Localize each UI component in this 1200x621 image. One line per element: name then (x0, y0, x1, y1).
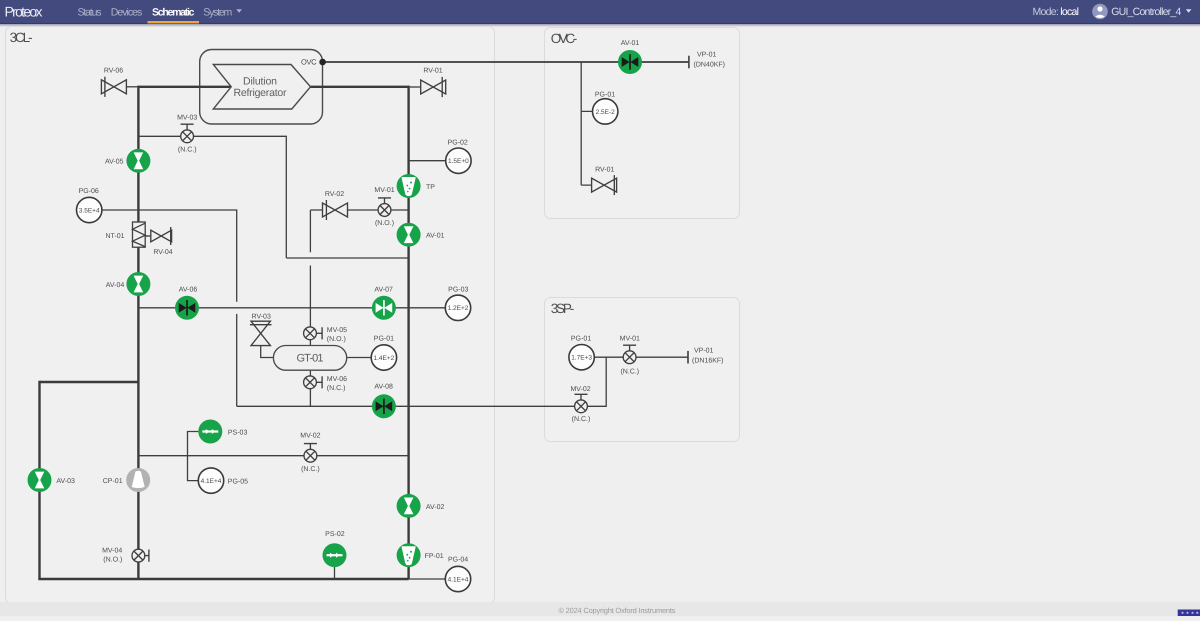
gauge PG-04 (445, 566, 470, 591)
panel OVC (545, 28, 740, 219)
gauge PG-01 (3SP) (569, 345, 594, 370)
wire: GT-01 to PG-01 (347, 357, 371, 359)
svg-text:Proteox: Proteox (5, 4, 43, 20)
manual valve MV-04 (132, 549, 149, 562)
svg-text:MV-05: MV-05 (327, 327, 347, 334)
wire: RV-01 stub (409, 86, 421, 88)
svg-text:1.4E+2: 1.4E+2 (374, 355, 395, 362)
valve RV-01 (3CL) (421, 77, 446, 97)
svg-text:MV-01: MV-01 (620, 335, 640, 342)
svg-text:1.7E+3: 1.7E+3 (571, 355, 592, 362)
svg-text:(N.C.): (N.C.) (327, 384, 346, 392)
wire: PS-03 PG-05 bracket (188, 432, 199, 481)
refrigerator chevron (213, 65, 310, 110)
svg-text:Schematic: Schematic (152, 7, 195, 19)
filter NT-01 (133, 222, 146, 247)
auto valve AV-08 (closed horizontal) (372, 394, 396, 418)
svg-text:Dilution: Dilution (243, 75, 277, 87)
svg-text:(N.C.): (N.C.) (301, 465, 320, 473)
port VP-01 (OVC) (688, 56, 690, 69)
wire: PG-04 stub (409, 578, 446, 580)
node OVC (319, 59, 326, 66)
wire: main pipe top-right horizontal (311, 86, 409, 88)
manual valve MV-02 (3SP) (575, 394, 588, 412)
svg-text:MV-03: MV-03 (177, 114, 197, 121)
tank GT-01 (273, 346, 346, 371)
panel 3SP (545, 298, 740, 442)
svg-text:PG-03: PG-03 (448, 287, 468, 294)
svg-text:MV-04: MV-04 (102, 547, 122, 554)
svg-text:AV-03: AV-03 (56, 478, 75, 485)
svg-text:AV-01: AV-01 (426, 233, 445, 240)
pressure switch PS-02 (323, 543, 347, 567)
wire: left loop top horizontal (40, 381, 139, 383)
svg-text:Status: Status (78, 7, 102, 19)
svg-text:2.5E-2: 2.5E-2 (596, 109, 616, 116)
svg-text:MV-01: MV-01 (374, 187, 394, 194)
valve RV-02 (323, 200, 348, 220)
valve RV-04 (145, 227, 171, 245)
valve RV-03 (250, 321, 272, 345)
auto valve AV-04 (open vertical) (126, 272, 150, 296)
gauge PG-05 (198, 468, 223, 493)
wire: OVC line (323, 61, 689, 63)
svg-text:3SP-: 3SP- (551, 301, 575, 316)
caret System (236, 9, 242, 13)
svg-text:RV-01: RV-01 (595, 167, 614, 174)
manual valve MV-01 (3CL) (378, 198, 391, 217)
valve RV-06 (101, 77, 126, 97)
svg-text:System: System (203, 7, 232, 19)
svg-text:CP-01: CP-01 (103, 478, 123, 485)
svg-text:PG-04: PG-04 (448, 556, 468, 563)
svg-text:© 2024 Copyright Oxford Instru: © 2024 Copyright Oxford Instruments (559, 606, 676, 615)
svg-text:PG-01: PG-01 (374, 335, 394, 342)
svg-text:PG-02: PG-02 (448, 140, 468, 147)
dev badge (1178, 610, 1200, 617)
svg-text:PG-01: PG-01 (595, 92, 615, 99)
svg-text:MV-02: MV-02 (300, 433, 320, 440)
wire: bottom main horizontal (38, 578, 408, 580)
svg-text:NT-01: NT-01 (105, 233, 124, 240)
auto valve AV-01 (3CL open vertical) (397, 223, 421, 247)
gauge PG-02 (446, 148, 471, 173)
manual valve MV-02 (3CL) (304, 444, 317, 463)
svg-text:(N.O.): (N.O.) (103, 555, 122, 563)
svg-text:OVC-: OVC- (551, 31, 578, 46)
svg-text:AV-07: AV-07 (374, 287, 393, 294)
svg-text:(N.O.): (N.O.) (327, 335, 346, 343)
svg-text:PG-01: PG-01 (571, 335, 591, 342)
svg-text:(N.C.): (N.C.) (178, 145, 197, 153)
valve RV-01 (OVC) (592, 175, 617, 195)
svg-text:RV-04: RV-04 (153, 249, 172, 256)
svg-text:AV-05: AV-05 (105, 159, 124, 166)
wire: RV-06 stub (126, 86, 138, 88)
svg-text:PS-02: PS-02 (325, 531, 345, 538)
auto valve AV-02 (open vertical) (397, 494, 421, 518)
svg-text:AV-04: AV-04 (106, 282, 125, 289)
svg-text:RV-01: RV-01 (423, 68, 442, 75)
auto valve AV-06 (closed horizontal) (175, 296, 199, 320)
gauge PG-06 (77, 197, 102, 222)
manual valve MV-06 (304, 376, 323, 389)
wire: left loop vertical (38, 381, 40, 579)
wire: MV-05 MV-06 vertical (309, 308, 311, 407)
svg-text:AV-06: AV-06 (179, 286, 198, 293)
svg-text:RV-03: RV-03 (252, 313, 271, 320)
manual valve MV-05 (304, 327, 323, 340)
wire: left main pipe vertical (137, 86, 139, 579)
svg-text:VP-01: VP-01 (697, 52, 717, 59)
wire: MV-02 row (138, 455, 408, 457)
svg-text:PS-03: PS-03 (228, 429, 248, 436)
svg-text:TP: TP (426, 184, 435, 191)
svg-text:AV-02: AV-02 (426, 504, 445, 511)
svg-text:MV-06: MV-06 (327, 376, 347, 383)
svg-text:RV-02: RV-02 (325, 191, 344, 198)
svg-text:4.1E+4: 4.1E+4 (448, 576, 469, 583)
panel 3CL (6, 27, 495, 604)
wire: AV-08 line to 3SP (237, 357, 607, 406)
svg-text:(N.C.): (N.C.) (620, 367, 639, 375)
svg-text:(N.C.): (N.C.) (572, 415, 591, 423)
user avatar (1092, 4, 1108, 20)
svg-text:FP-01: FP-01 (425, 553, 444, 560)
footer (0, 602, 1200, 616)
active underline (148, 21, 200, 23)
gauge PG-03 (445, 295, 470, 320)
auto valve AV-07 (open horizontal) (372, 296, 396, 320)
wire: PG-06 branch (102, 210, 237, 406)
top navigation bar (0, 0, 1200, 24)
svg-text:VP-01: VP-01 (694, 347, 714, 354)
wire: 3SP gauge line (595, 356, 688, 358)
caret user (1186, 9, 1192, 13)
svg-text:GUI_Controller_4: GUI_Controller_4 (1111, 6, 1181, 18)
turbo pump TP (397, 174, 421, 198)
svg-text:(DN16KF): (DN16KF) (692, 356, 724, 364)
svg-text:Mode: local: Mode: local (1033, 6, 1080, 18)
manual valve MV-01 (3SP) (623, 345, 636, 363)
svg-text:MV-02: MV-02 (570, 386, 590, 393)
svg-text:AV-08: AV-08 (374, 384, 393, 391)
pressure switch PS-03 (198, 420, 222, 444)
wire: PS-02 stem (334, 566, 336, 579)
gauge PG-01 (3CL) (371, 345, 396, 370)
wire: OVC panel vertical (581, 62, 592, 185)
manual valve MV-03 (181, 124, 194, 143)
svg-text:Refrigerator: Refrigerator (234, 87, 288, 99)
wire: RV-03 to GT-01 (261, 346, 274, 358)
wire: AV-06 AV-07 PG-03 horizontal (138, 307, 445, 309)
svg-text:Devices: Devices (111, 7, 143, 19)
svg-text:RV-06: RV-06 (104, 68, 123, 75)
auto valve AV-01 (OVC closed horizontal) (618, 50, 642, 74)
compressor CP-01 (126, 468, 150, 492)
svg-text:PG-05: PG-05 (228, 479, 248, 486)
svg-text:GT-01: GT-01 (297, 352, 324, 364)
svg-text:3.5E+4: 3.5E+4 (79, 207, 100, 214)
wire: main pipe top-left horizontal (138, 86, 231, 88)
port VP-01 (3SP) (687, 351, 689, 364)
auto valve AV-05 (open vertical) (126, 149, 150, 173)
svg-text:OVC: OVC (301, 58, 317, 67)
wire: right main pipe vertical (407, 86, 409, 579)
fore pump FP-01 (397, 543, 421, 567)
svg-text:PG-06: PG-06 (79, 188, 99, 195)
wire: PG-02 branch (409, 160, 446, 162)
svg-text:1.2E+2: 1.2E+2 (448, 305, 469, 312)
wire: MV-03 branch (138, 136, 408, 258)
svg-text:4.1E+4: 4.1E+4 (201, 478, 222, 485)
auto valve AV-03 (open vertical) (28, 468, 52, 492)
svg-text:AV-01: AV-01 (621, 40, 640, 47)
svg-text:(DN40KF): (DN40KF) (694, 60, 726, 68)
gauge PG-01 (OVC) (593, 99, 618, 124)
wire: RV-02 MV-01 branch (310, 210, 408, 308)
svg-text:(N.O.): (N.O.) (375, 219, 394, 227)
svg-text:3CL-: 3CL- (10, 30, 33, 45)
dilution refrigerator box (200, 50, 323, 125)
svg-text:1.5E+0: 1.5E+0 (448, 158, 469, 165)
